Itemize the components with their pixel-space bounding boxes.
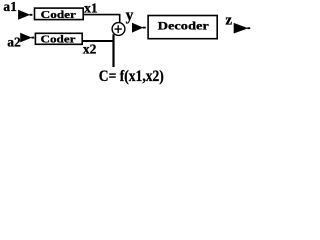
svg-text:x1: x1 — [84, 1, 98, 16]
svg-text:Coder: Coder — [41, 34, 76, 46]
input arrow a1 — [18, 10, 32, 20]
svg-text:a2: a2 — [7, 35, 21, 50]
svg-text:Decoder: Decoder — [158, 21, 209, 33]
svg-text:z: z — [225, 13, 232, 29]
svg-text:y: y — [126, 7, 134, 24]
summer circle — [112, 23, 125, 36]
coder block 2 — [35, 33, 82, 45]
output arrow z — [234, 23, 251, 34]
svg-text:C= f(x1,x2): C= f(x1,x2) — [99, 68, 164, 85]
wire x1 to summer — [83, 15, 119, 23]
svg-text:a1: a1 — [3, 0, 17, 14]
svg-text:x2: x2 — [83, 42, 97, 57]
wire x2 to junction — [83, 40, 114, 42]
plus sign — [115, 25, 122, 33]
coder block 1 — [35, 8, 84, 21]
wire junction to C label — [112, 34, 114, 67]
decoder block — [148, 16, 217, 39]
input arrow a2 — [20, 33, 34, 43]
arrow into decoder — [132, 23, 146, 33]
svg-text:Coder: Coder — [41, 9, 76, 21]
